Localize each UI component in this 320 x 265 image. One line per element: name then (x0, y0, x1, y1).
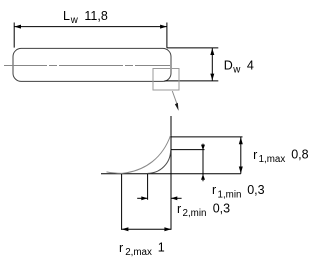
Lw extension line right (166, 23, 168, 48)
r2max arrow right (164, 227, 171, 231)
roller body (13, 48, 171, 81)
r1min extension line (171, 149, 205, 151)
svg-text:r: r (119, 241, 123, 255)
r1max dimension line (240, 137, 242, 174)
Dw extension line top (167, 47, 218, 49)
detail leader arrowhead (175, 103, 179, 111)
svg-text:w: w (232, 65, 241, 76)
r1min arrow top (outside pointing down) (201, 145, 205, 151)
r1min dimension line (202, 144, 204, 182)
r2max arrow left (122, 227, 129, 231)
r2max profile curve (107, 135, 171, 173)
Dw arrow down (210, 74, 214, 81)
r2max dimension line (122, 228, 172, 230)
r2min profile curve (148, 150, 171, 173)
r1min arrow bottom (outside pointing up) (201, 174, 205, 180)
svg-text:1: 1 (158, 241, 165, 255)
svg-text:1,min: 1,min (218, 189, 242, 200)
svg-text:2,max: 2,max (125, 247, 152, 258)
svg-text:11,8: 11,8 (84, 9, 107, 23)
svg-text:0,3: 0,3 (247, 183, 264, 197)
r2min dimension stub right (171, 197, 182, 199)
Dw extension line bottom (165, 80, 219, 82)
r2min arrow left (pointing right) (141, 196, 147, 200)
svg-text:1,max: 1,max (259, 154, 286, 165)
svg-text:D: D (224, 59, 233, 73)
r2min dimension stub left (137, 197, 147, 199)
detail leader line (172, 91, 177, 104)
detail bottom edge (101, 173, 241, 175)
Lw arrow left (14, 25, 21, 29)
svg-text:r: r (212, 183, 216, 197)
svg-text:r: r (253, 148, 257, 162)
svg-text:w: w (70, 15, 79, 26)
Lw extension line left (13, 23, 15, 48)
r2max extension line left (121, 174, 123, 230)
r2min arrow right (pointing left) (171, 196, 177, 200)
r1max arrow up (239, 137, 243, 144)
svg-text:r: r (177, 202, 181, 216)
detail corner vertical edge (170, 116, 172, 230)
r1max extension line (171, 136, 243, 138)
Lw dimension line (14, 26, 167, 28)
svg-text:0,8: 0,8 (291, 147, 308, 161)
detail box (153, 69, 179, 91)
svg-text:2,min: 2,min (183, 208, 207, 219)
r1max arrow down (239, 167, 243, 174)
roller centerline (4, 65, 170, 67)
Dw dimension line (211, 48, 213, 81)
Dw arrow up (210, 48, 214, 55)
Lw arrow right (160, 25, 167, 29)
svg-text:L: L (63, 9, 70, 23)
r2min extension line (147, 174, 149, 200)
svg-text:4: 4 (247, 59, 254, 73)
svg-text:0,3: 0,3 (213, 202, 230, 216)
